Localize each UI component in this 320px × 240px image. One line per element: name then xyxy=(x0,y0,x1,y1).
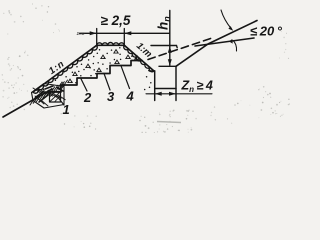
toe dark accents xyxy=(36,86,63,102)
steep existing ground line xyxy=(176,21,257,67)
upper angle arrowhead xyxy=(228,26,233,31)
svg-text:4: 4 xyxy=(126,89,135,104)
crest width extension line left xyxy=(96,29,98,47)
Z_n left arrowhead xyxy=(155,92,162,96)
Z_n dimension line xyxy=(146,93,212,95)
toe drainage rectangle xyxy=(50,92,61,103)
leader 3 xyxy=(104,74,110,91)
bench steps cut into existing slope xyxy=(48,61,142,93)
h_n up arrowhead xyxy=(168,46,172,53)
crest level line (right) xyxy=(151,46,177,48)
left slope line 1:n xyxy=(33,45,97,92)
scan noise texture xyxy=(2,4,291,134)
lower angle arrowhead xyxy=(229,39,233,44)
trench left wall + extension xyxy=(154,71,156,101)
crest line xyxy=(97,44,125,46)
leader 2 xyxy=(81,79,87,91)
stray gray dash bottom center xyxy=(157,122,181,123)
angle leader arrow upper xyxy=(221,10,232,29)
trench right wall + extension xyxy=(175,66,177,100)
svg-text:≥ 2,5: ≥ 2,5 xyxy=(101,13,131,28)
trench bottom xyxy=(155,88,176,90)
crest stone pitching scallops xyxy=(97,43,125,46)
embankment fill: dots and gravel triangles xyxy=(43,47,152,90)
ground level tick at trench xyxy=(159,65,176,67)
h_n vertical dimension line xyxy=(169,11,171,66)
right slope line 1:m xyxy=(124,45,154,71)
right slope stone pitching scallops xyxy=(124,45,154,71)
right slope toe line xyxy=(150,70,155,72)
leader 1 xyxy=(57,96,65,106)
svg-text:≤ 20 °: ≤ 20 ° xyxy=(250,24,283,39)
toe support prism (hatched) xyxy=(32,84,65,109)
Z_n right arrowhead xyxy=(169,92,176,96)
svg-text:2: 2 xyxy=(83,90,92,105)
dimension arrowhead right-pointing xyxy=(90,31,97,35)
h_n down arrowhead xyxy=(168,59,172,66)
crest width extension line right xyxy=(123,29,125,47)
svg-text:Zn ≥ 4: Zn ≥ 4 xyxy=(181,79,213,95)
left slope stone pitching scallops xyxy=(33,45,97,93)
svg-text:1:m: 1:m xyxy=(77,31,85,36)
svg-text:1: 1 xyxy=(63,102,70,117)
dashed original ground surface xyxy=(148,38,212,60)
svg-text:3: 3 xyxy=(107,89,115,104)
natural ground line (left) xyxy=(3,89,52,117)
crest width dimension line xyxy=(80,32,170,34)
background paper xyxy=(0,0,290,133)
shallow ground reference line xyxy=(195,38,254,46)
toe hatch lines xyxy=(30,80,68,105)
dimension arrowhead left-pointing xyxy=(124,31,131,35)
angle leader arrow lower xyxy=(233,41,237,52)
leader 4 xyxy=(121,66,130,89)
